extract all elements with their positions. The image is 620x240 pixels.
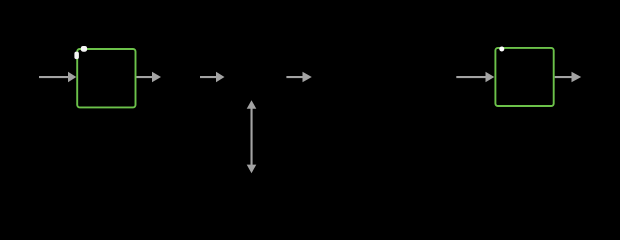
wire arrow A4 out of middle block xyxy=(286,72,311,82)
badge icon on block B1 (left) xyxy=(74,52,79,60)
wire arrow A2 out of left block xyxy=(137,72,162,82)
wire arrow A5 into right block xyxy=(456,72,494,82)
wire arrow A3 into middle block xyxy=(200,72,225,82)
bidirectional vertical arrow below middle block xyxy=(247,100,257,173)
block B1 (left green subsystem) xyxy=(77,49,135,107)
badge dot on block B2 xyxy=(499,47,504,52)
wire arrow A1 into left block xyxy=(39,72,76,82)
badge icon on block B1 (top) xyxy=(81,46,87,52)
wire arrow A6 out of right block xyxy=(555,72,582,82)
block B2 (right green subsystem) xyxy=(495,48,553,106)
